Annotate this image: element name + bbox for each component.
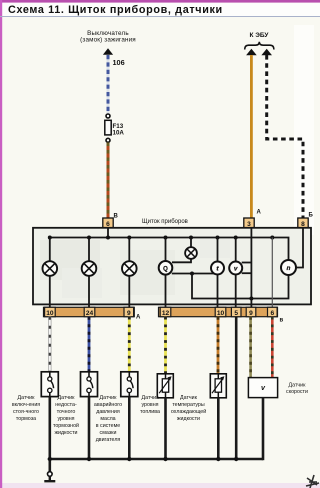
wire cluster pin 3 to ECU (orange) bbox=[250, 55, 253, 218]
connector strip A bbox=[44, 307, 135, 316]
svg-text:6: 6 bbox=[106, 221, 110, 228]
svg-text:(замок) зажигания: (замок) зажигания bbox=[80, 37, 136, 44]
svg-text:А: А bbox=[136, 315, 141, 321]
svg-text:9: 9 bbox=[249, 310, 253, 317]
svg-text:6: 6 bbox=[270, 310, 274, 317]
low fuel warning lamp bbox=[185, 247, 197, 259]
svg-text:Б: Б bbox=[309, 213, 314, 219]
arrow to ECU left bbox=[246, 49, 257, 56]
lamp parking brake bbox=[43, 261, 58, 276]
wire pin 9A to oil pressure switch (yellow-black) bbox=[128, 317, 131, 372]
svg-text:Схема 11. Щиток приборов, датч: Схема 11. Щиток приборов, датчики bbox=[8, 4, 223, 16]
instrument cluster box bbox=[33, 228, 311, 305]
wire bus to fuel gauge and fuel gauge to pin 12 bbox=[165, 238, 167, 308]
wire cluster pin 8 to ECU (black-white dashed) bbox=[267, 55, 303, 218]
svg-text:Q: Q bbox=[163, 266, 168, 272]
wire bus to low fuel lamp bbox=[190, 238, 192, 248]
title bbox=[0, 4, 320, 17]
wire bus to speedometer and speedometer to pin 5 bbox=[235, 238, 237, 308]
wire node down and across to tachometer bottom bbox=[192, 274, 289, 299]
svg-text:10: 10 bbox=[217, 310, 225, 317]
parking brake switch sensor bbox=[41, 372, 58, 397]
svg-text:Датчикскорости: Датчикскорости bbox=[286, 383, 308, 395]
svg-text:В: В bbox=[114, 214, 119, 220]
speedometer bbox=[229, 262, 242, 275]
svg-text:8: 8 bbox=[301, 221, 305, 228]
pin 12 connector B bbox=[160, 307, 171, 317]
arrow to ignition switch bbox=[103, 48, 113, 55]
svg-text:в: в bbox=[280, 318, 284, 324]
wire pin 24 to brake fluid switch (blue-black) bbox=[88, 317, 91, 372]
ground bus junction dots bbox=[48, 457, 239, 461]
pin 10 connector B bbox=[215, 307, 226, 317]
svg-text:12: 12 bbox=[162, 310, 170, 317]
svg-text:3: 3 bbox=[247, 221, 251, 228]
brace over K EBU arrows bbox=[245, 42, 274, 50]
wire pin 12 to fuel level sensor (yellow-black) bbox=[164, 317, 167, 374]
ground wire from brake fluid switch bbox=[88, 397, 91, 459]
wire fuse to cluster pin 6 (red-black) bbox=[107, 143, 110, 219]
pin 24 connector A bbox=[84, 307, 95, 317]
lamp oil pressure bbox=[122, 261, 137, 276]
speed sensor bbox=[248, 378, 277, 398]
fuse F13 10A bbox=[105, 114, 125, 142]
wire 106 blue-white from ignition switch to fuse bbox=[107, 55, 110, 114]
pin 3 top connector bbox=[244, 218, 254, 228]
svg-text:9: 9 bbox=[127, 310, 131, 317]
ground wire from parking brake switch bbox=[48, 397, 51, 472]
supply bus inside cluster bbox=[50, 228, 289, 260]
ground wire from oil pressure switch bbox=[128, 397, 131, 459]
bus junction dots bbox=[48, 236, 274, 240]
ground bbox=[44, 472, 55, 482]
pin 5 connector B bbox=[231, 307, 241, 317]
svg-text:24: 24 bbox=[86, 310, 94, 317]
svg-text:n: n bbox=[287, 265, 291, 272]
wire low fuel lamp to fuel gauge upper stub bbox=[172, 260, 191, 263]
svg-text:10А: 10А bbox=[113, 130, 125, 137]
pin 6 top connector bbox=[103, 218, 113, 228]
ground wire from coolant temp sensor bbox=[217, 398, 220, 459]
wire pin 10A to parking brake switch (white-black) bbox=[48, 317, 51, 372]
pin 9 connector A bbox=[124, 307, 134, 317]
svg-text:Щиток приборов: Щиток приборов bbox=[142, 219, 188, 225]
speedometer right bracket stubs bbox=[242, 263, 252, 274]
ground wire from speed sensor bbox=[262, 398, 265, 461]
oil pressure switch sensor bbox=[121, 372, 138, 397]
svg-text:К ЭБУ: К ЭБУ bbox=[250, 32, 270, 39]
wire bus to lamp2 and lamp2 to pin 24 bbox=[88, 238, 90, 308]
fuel gauge bbox=[159, 261, 173, 275]
wire bus to lamp1 and lamp1 to pin 10 bbox=[49, 238, 51, 308]
svg-text:А: А bbox=[257, 210, 262, 216]
wire pin 3 through cluster to pin 9B bbox=[250, 228, 252, 308]
wire pin 6B to speed sensor (red-black) bbox=[271, 317, 274, 378]
tachometer bbox=[281, 260, 296, 275]
wire pin 8 to tachometer right side bbox=[296, 228, 303, 268]
pin 8 top connector bbox=[298, 218, 308, 228]
corner mark bbox=[306, 475, 319, 488]
wire pin 5 to ground bus (black) bbox=[235, 317, 238, 459]
node speed signal bbox=[249, 297, 253, 301]
ground bus bbox=[50, 458, 263, 461]
pin 9 connector B bbox=[246, 307, 256, 317]
svg-text:10: 10 bbox=[46, 310, 54, 317]
brake fluid level switch sensor bbox=[81, 372, 98, 397]
svg-text:Датчикуровнятоплива: Датчикуровнятоплива bbox=[140, 395, 160, 415]
wire bus to pin 6B (thin) bbox=[271, 238, 273, 308]
lamp brake fluid bbox=[82, 261, 97, 276]
ignition switch label bbox=[80, 30, 136, 44]
wire fuel gauge lower stub to temp wire bbox=[172, 273, 218, 275]
wire bus to temp gauge and temp gauge to pin 10B bbox=[217, 238, 219, 308]
pin 10 connector A bbox=[45, 307, 56, 317]
temp gauge bbox=[211, 262, 224, 275]
arrow to ECU right bbox=[261, 49, 272, 56]
fuel level sensor (rheostat) bbox=[157, 374, 173, 398]
svg-text:v: v bbox=[234, 266, 238, 273]
wire pin 10B to coolant temp sensor (orange-black) bbox=[217, 317, 220, 374]
svg-text:5: 5 bbox=[234, 310, 238, 317]
pin 6 connector B bbox=[268, 307, 278, 317]
ground wire from fuel level sensor bbox=[164, 398, 167, 459]
wire pin 9B to speed sensor (olive dashed) bbox=[249, 317, 252, 378]
wire bus to lamp3 and lamp3 to pin 9 bbox=[128, 238, 130, 308]
svg-text:106: 106 bbox=[113, 58, 125, 67]
coolant temperature sensor (thermistor) bbox=[210, 374, 226, 398]
connector strip B bbox=[159, 307, 278, 316]
node fuel signal bbox=[190, 272, 194, 276]
